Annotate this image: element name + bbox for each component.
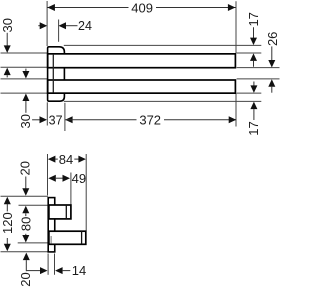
wall plate (side view)	[48, 198, 55, 252]
towel bar 2 (top view)	[48, 80, 236, 93]
svg-text:17: 17	[246, 121, 261, 135]
arm and bar 2 (side view)	[49, 231, 86, 244]
svg-text:20: 20	[18, 272, 33, 286]
dimension 30 (top left, bar1 width)	[0, 18, 15, 77]
extension line: plate right lower x=64.9	[64, 103, 66, 131]
extension line: left reference x=47.1	[46, 1, 48, 46]
dimension 20 (side bottom)	[18, 253, 33, 287]
dimension 37 (plate depth)	[32, 114, 62, 128]
dimension 30 (bottom left, bar2 width)	[18, 69, 33, 129]
svg-text:37: 37	[49, 114, 63, 128]
extension line: bar end lower x=236	[235, 94, 237, 127]
dimension 20 (side top)	[17, 161, 32, 213]
svg-text:372: 372	[139, 113, 161, 128]
extension line: wall x=47.5	[47, 154, 49, 195]
extension line: plate top y=196.2	[1, 195, 48, 197]
extension line: plate front lower x=54.5	[54, 254, 56, 275]
dimension 49 (bar1 depth)	[48, 171, 86, 186]
svg-text:84: 84	[59, 152, 73, 167]
extension line: bar2 top right y=78.9	[237, 78, 280, 80]
extension line: plate left lower x=47.3	[46, 102, 48, 125]
bar 1 profile line	[65, 205, 67, 219]
dimension 26 (bar gap, right)	[265, 32, 280, 93]
dimension 17 (bottom right)	[246, 82, 261, 136]
dimension 24	[38, 19, 92, 33]
dimension 84 (bar2 depth)	[48, 152, 86, 167]
extension line: bar1 top left y=53	[1, 52, 48, 54]
extension line: bar1 bottom right y=67.4	[237, 67, 280, 69]
dimension 14 (plate thickness)	[27, 263, 87, 278]
svg-text:80: 80	[18, 217, 33, 231]
bar 2 profile line	[81, 231, 83, 244]
extension line: plate bottom level y=101.4	[64, 100, 261, 102]
svg-text:17: 17	[246, 12, 261, 26]
extension line: 24mm reference x=58.6	[58, 20, 60, 42]
svg-text:24: 24	[78, 19, 92, 33]
extension line: 80 bottom y=242.9	[18, 242, 49, 244]
extension line: plate bottom y=251.8	[1, 251, 48, 253]
dimension 372 (bar length)	[65, 113, 236, 128]
extension line: bar2 bottom left y=93.1	[1, 92, 48, 94]
svg-text:20: 20	[17, 161, 32, 175]
svg-text:120: 120	[0, 212, 15, 234]
wall plate (top view)	[48, 47, 65, 101]
dimension 120 (plate height)	[0, 197, 15, 252]
svg-text:30: 30	[0, 18, 15, 32]
extension line: bar2 top left y=78.9	[1, 78, 48, 80]
extension line: bar1 top right y=53	[237, 52, 262, 54]
svg-text:30: 30	[18, 114, 33, 128]
extension line: bar1 front x=70.9	[70, 173, 72, 205]
svg-text:26: 26	[265, 32, 280, 46]
pivot joint line (top view)	[52, 55, 54, 93]
arm and bar 1 (side view)	[49, 205, 71, 219]
extension line: bar2 bottom right y=93.1	[237, 92, 262, 94]
extension line: bar1 top y=205.3	[19, 204, 49, 206]
svg-text:49: 49	[72, 171, 86, 186]
svg-text:14: 14	[72, 263, 86, 278]
dimension 80	[18, 213, 33, 242]
towel bar 1 (top view)	[48, 54, 236, 68]
extension line: plate back lower x=48.1	[47, 254, 49, 275]
bar 2 joint line	[50, 236, 52, 243]
dimension 17 (top right)	[246, 12, 261, 67]
dimension 409 (overall length)	[47, 0, 236, 15]
extension line: bar2 front x=86.2	[85, 154, 87, 231]
extension line: plate top level y=45.4	[64, 44, 261, 46]
svg-text:409: 409	[131, 0, 153, 15]
extension line: bar end upper x=236	[235, 1, 237, 53]
extension line: bar1 bottom left y=67.2	[1, 66, 48, 68]
